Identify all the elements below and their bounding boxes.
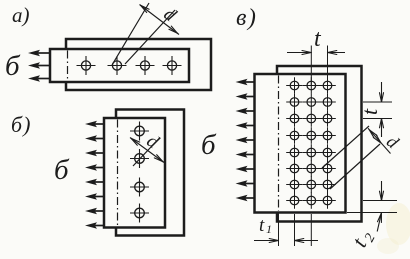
force arrow B2 — [85, 135, 97, 142]
rivet hole V1-7 — [290, 180, 299, 189]
force arrow V5 — [236, 137, 248, 144]
force arrow A1 — [28, 50, 40, 57]
scan stain — [386, 203, 410, 245]
rivet hole B4 — [135, 208, 145, 218]
rivet hole V2-6 — [307, 164, 316, 173]
t2 extension line row8 — [363, 200, 397, 202]
d extension line 1 (panel v) — [322, 126, 369, 168]
plate A back (lower sheet) — [66, 39, 211, 90]
svg-text:б: б — [54, 154, 70, 186]
force arrow B7 — [85, 208, 97, 215]
force arrow B8 — [85, 222, 97, 229]
t right extension line row3 — [363, 118, 392, 120]
rivet hole V3-8 — [323, 196, 332, 205]
d extension line 2 (panel a) — [125, 10, 175, 64]
rivet hole V3-4 — [323, 131, 332, 140]
rivet hole V2-1 — [307, 81, 316, 90]
rivet hole B2 — [135, 154, 145, 164]
t right dimension line — [381, 82, 383, 102]
rivet hole V3-2 — [323, 98, 332, 107]
rivet hole V1-1 — [290, 81, 299, 90]
t1 extension line (plate edge) — [278, 213, 280, 246]
hidden edge of back plate (dash-dot) — [67, 51, 69, 82]
d dimension line (panel a) — [140, 5, 180, 35]
rivet hole V1-3 — [290, 114, 299, 123]
hidden edge of back plate V (dash-dot) — [278, 76, 280, 212]
svg-text:1: 1 — [266, 222, 272, 236]
rivet hole V1-2 — [290, 98, 299, 107]
rivet hole V2-3 — [307, 114, 316, 123]
rivet hole V2-5 — [307, 148, 316, 157]
svg-text:t: t — [357, 108, 382, 115]
rivet hole A3 — [140, 61, 149, 70]
t2 dimension line — [381, 181, 383, 201]
force arrow B3 — [85, 150, 97, 157]
t top extension line col2 — [310, 46, 312, 86]
rivet hole V2-4 — [307, 131, 316, 140]
rivet hole B3 — [135, 182, 145, 192]
t1 extension line col2 — [310, 214, 312, 246]
force arrow V6 — [236, 151, 248, 158]
force arrow V4 — [236, 122, 248, 129]
force arrow V7 — [236, 166, 248, 173]
force arrow A3 — [28, 75, 40, 82]
rivet hole A4 — [167, 61, 176, 70]
plate V front (upper sheet with rivet holes) — [255, 74, 346, 213]
plate B front (upper sheet with rivet holes) — [104, 118, 165, 228]
rivet hole V3-6 — [323, 164, 332, 173]
rivet hole V1-4 — [290, 131, 299, 140]
rivet hole V2-8 — [307, 196, 316, 205]
force arrow B6 — [85, 193, 97, 200]
t1 extension line col1 — [294, 214, 296, 246]
rivet hole V1-8 — [290, 196, 299, 205]
d dimension line (panel v) — [368, 128, 391, 153]
rivet hole V3-3 — [323, 114, 332, 123]
plate A front (upper sheet with rivet holes) — [50, 49, 189, 82]
force arrow V1 — [236, 79, 248, 86]
force arrow B4 — [85, 164, 97, 171]
force arrow V3 — [236, 108, 248, 115]
svg-text:б: б — [201, 129, 217, 161]
force arrow V2 — [236, 93, 248, 100]
rivet hole V2-2 — [307, 98, 316, 107]
rivet hole V2-7 — [307, 180, 316, 189]
rivet hole V3-5 — [323, 148, 332, 157]
plate B back (lower sheet) — [116, 110, 184, 236]
d dimension line (panel b) — [130, 138, 164, 163]
d extension line 1 (panel a) — [112, 3, 149, 65]
plate V back (lower sheet) — [277, 66, 362, 222]
t top extension line col3 — [327, 46, 329, 86]
rivet hole A2 — [112, 61, 121, 70]
force arrow V8 — [236, 180, 248, 187]
svg-text:t: t — [259, 215, 265, 236]
svg-text:а): а) — [12, 3, 30, 27]
svg-text:в): в) — [236, 5, 257, 31]
force arrow B1 — [85, 121, 97, 128]
rivet hole V3-1 — [323, 81, 332, 90]
rivet hole V1-5 — [290, 148, 299, 157]
force arrow B5 — [85, 179, 97, 186]
d extension line 2 (panel v) — [330, 144, 380, 189]
force arrow A2 — [28, 62, 40, 69]
t top dimension line — [287, 52, 311, 54]
rivet hole A1 — [81, 61, 90, 70]
t2 value label — [346, 225, 378, 252]
force arrow V9 — [236, 195, 248, 202]
svg-text:б: б — [5, 50, 21, 82]
svg-text:б): б) — [11, 112, 31, 137]
rivet hole V3-7 — [323, 180, 332, 189]
t right extension line row2 — [363, 101, 392, 103]
rivet hole B1 — [135, 126, 145, 136]
t2 extension line plate bottom — [347, 212, 397, 214]
t1 dimension line — [254, 240, 279, 242]
d extension line (panel b) — [133, 138, 160, 167]
rivet hole V1-6 — [290, 164, 299, 173]
hidden edge of back plate B (dash-dot) — [117, 120, 119, 227]
